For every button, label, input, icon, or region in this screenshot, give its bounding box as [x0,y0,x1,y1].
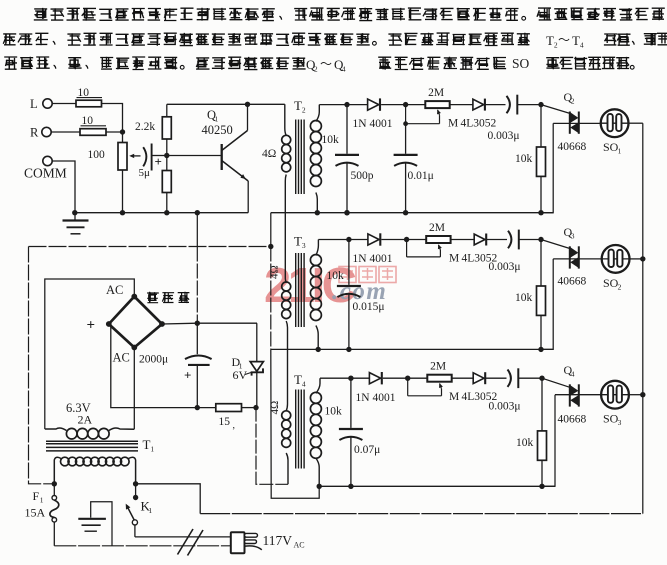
node T1 primary right [133,481,138,486]
wire triac return to rail (channel1) [541,123,553,212]
wire COMM to ground rail [52,161,77,215]
wire socket to return bus (channel1) [629,122,643,124]
svg-text:10k: 10k [515,153,533,165]
potentiometer 2M (channel1) [406,87,450,108]
svg-text:2.2k: 2.2k [135,121,155,133]
transformer T1 core [46,437,154,454]
lamp socket SO2 (channel2) [602,245,630,291]
svg-text:2: 2 [571,97,575,106]
diode 1N4001 (channel3) [351,372,396,404]
svg-text:AC: AC [106,283,123,297]
resistor 10k (channel3) [516,378,547,489]
potentiometer 2M (channel2) [407,222,451,243]
svg-text:1N: 1N [353,253,368,265]
svg-text:M: M [449,391,459,403]
svg-text:SO: SO [603,276,619,290]
svg-text:10k: 10k [515,292,533,304]
wire T2 primary top lead [285,104,286,135]
watermark Chinese characters (stylized) [339,267,396,283]
wire T3 secondary top lead [316,240,319,256]
wire lamp return bus (right vertical) [642,123,644,513]
svg-text:4: 4 [342,65,346,74]
wire R-10a to node A [102,104,123,133]
input terminal L [30,97,52,111]
capacitor 0.003u (channel1) [485,95,541,142]
wire triac MT (channel2) [553,258,601,260]
diode 1N4001 (channel1) [347,98,393,130]
wire channel1 rail nodes [344,210,349,215]
resistor 10k (channel1) [515,105,546,216]
svg-text:4: 4 [571,369,575,378]
triac Q2 40668 [558,90,587,153]
wire primaries return (to T4 primary bottom) [256,408,288,485]
pot 100 wiper arrow [129,154,140,158]
wire AC top feed (T1 secondary left to bridge) [45,279,135,429]
transformer T4 secondary winding 10k [310,392,342,458]
triac Q3 40668 [558,225,587,288]
wire R-10b to node A [106,131,123,133]
switch K1 [126,484,153,537]
wire T2 secondary top lead [316,105,319,122]
node B (2.2k / bias divider / base) [164,153,169,158]
svg-text:1: 1 [150,445,154,454]
svg-text:1: 1 [618,147,622,156]
wire triac MT (channel3) [555,394,601,396]
capacitor 2000u (electrolytic) [139,323,212,407]
svg-text:1N: 1N [353,118,368,130]
transformer T2 core [294,98,306,194]
resistor 10 (R input) [80,115,106,135]
svg-text:0.003μ: 0.003μ [489,261,521,273]
resistor 2.2k [135,104,171,155]
pot 2M wiper return (channel2) [407,240,442,257]
svg-text:1: 1 [40,496,44,505]
svg-text:0.015μ: 0.015μ [353,301,385,313]
wire socket to return bus (channel3) [629,392,646,397]
svg-text:15A: 15A [25,506,46,520]
svg-text:40668: 40668 [558,276,587,288]
svg-text:40668: 40668 [558,141,587,153]
node zener / primaries return [253,405,258,410]
wire channel3 common rail [319,485,555,487]
svg-text:10k: 10k [325,406,343,418]
svg-text:4001: 4001 [373,392,396,404]
transformer T2 secondary winding 10k [310,121,339,187]
svg-text:2A: 2A [78,413,93,427]
svg-text:15: 15 [219,416,231,428]
bridge rectifier (zhengliuqi) [87,283,165,365]
svg-text:10k: 10k [322,134,340,146]
node common bus / supply negative [268,244,273,249]
transistor Q1 40250 [202,104,249,212]
svg-text:3: 3 [571,231,575,240]
capacitor 0.015μ (tuning) [337,240,385,353]
resistor 10k (channel2) [515,240,546,353]
svg-text:500p: 500p [351,170,374,182]
transformer T4 core [294,372,306,469]
wire base node B to Q1 base [167,155,221,157]
node channel1 tuning cap junction [344,102,349,107]
svg-text:1N: 1N [356,392,371,404]
svg-text:+: + [87,318,96,334]
wire mains cable top conductor [135,536,231,538]
wire triac return to rail (channel3) [542,395,555,487]
transformer T3 primary winding 4ohm [269,265,291,318]
watermark .com (stylized) [332,278,387,305]
wire channel1 common rail [271,212,553,214]
svg-text:SO: SO [603,412,619,426]
wire triac return to rail (channel2) [541,259,553,350]
wire channel common bus (x=271) [271,213,319,499]
svg-text:,: , [233,420,236,431]
zener diode D1 6V [232,323,264,407]
diode 1N4001 (channel2) [349,233,393,265]
svg-text:5μ: 5μ [139,167,151,179]
mains plug 117VAC [231,532,305,553]
wire socket to return bus (channel2) [630,256,646,261]
wire T4 primary top to channel2 rail [286,349,287,410]
svg-text:L: L [30,97,38,111]
input terminal COMM [24,156,67,180]
svg-text:M: M [449,252,459,264]
svg-text:2M: 2M [429,222,445,234]
wire diode to node (channel3) [383,377,408,379]
svg-text:2: 2 [618,282,622,291]
wire R to R-10b [51,131,80,133]
svg-text:40250: 40250 [202,123,233,137]
svg-text:2000μ: 2000μ [139,354,168,366]
wire T4 secondary top lead [316,378,320,393]
svg-text:+: + [155,154,162,169]
svg-text:4L3052: 4L3052 [461,117,497,129]
node channel1 filter junction [403,102,408,107]
lamp socket SO3 (channel3) [601,381,629,427]
capacitor 0.003u (channel2) [486,230,541,273]
wire channel2 common rail [271,348,553,350]
svg-text:F: F [33,489,40,503]
wire bridge + to supply rail [109,324,216,408]
node channel3 gate junction [539,376,544,381]
svg-text:AC: AC [294,541,305,550]
wire T4 primary bottom to supply return [286,453,288,484]
paragraph line 1 (Chinese description text, stylized) [34,8,665,21]
node supply filter [195,405,200,410]
svg-text:T: T [294,98,302,113]
triac Q4 40668 [558,363,587,426]
wire mains cable bottom conductor [54,545,230,547]
svg-text:T: T [572,33,580,48]
svg-text:SO: SO [512,56,530,71]
paragraph line 2 (Chinese description text, stylized) [3,33,667,50]
wire diode to node (channel1) [381,104,406,106]
resistor (lower bias) [162,156,171,213]
svg-text:4: 4 [302,380,306,389]
node channel2 gate junction [538,237,543,242]
svg-text:4001: 4001 [370,253,393,265]
transformer T1 secondary winding 6.3V 2A [45,401,135,439]
svg-text:4: 4 [580,41,584,50]
wire channel1 secondary line [319,104,347,106]
ground (signal) [63,213,89,234]
fuse F1 15A [25,484,59,546]
pot 2M wiper return (channel3) [408,378,443,396]
svg-text:T: T [546,33,554,48]
svg-text:10k: 10k [516,437,534,449]
svg-text:0.01μ: 0.01μ [408,170,434,182]
potentiometer 100 [88,132,128,213]
resistor 10 (L input) [76,87,102,107]
svg-text:2: 2 [314,65,318,74]
svg-text:SO: SO [603,140,619,154]
wire T3 primary bottom to channel2 rail [286,321,287,349]
node Q1 collector junction [245,102,250,107]
svg-text:AC: AC [113,351,130,365]
svg-text:3: 3 [618,418,622,427]
svg-text:40668: 40668 [558,414,587,426]
wire T2 secondary bottom lead [315,193,320,216]
potentiometer 2M (channel3) [408,361,452,382]
svg-text:0.003μ: 0.003μ [489,401,521,413]
transformer T4 primary winding 4ohm [269,401,291,448]
transformer T1 primary winding [54,457,135,484]
wire T4 secondary bottom lead [316,458,322,489]
wire input ground rail [75,210,248,215]
svg-text:0.003μ: 0.003μ [488,130,520,142]
transformer T3 secondary winding 10k [310,255,344,321]
svg-text:1: 1 [148,506,152,515]
svg-text:4001: 4001 [370,118,393,130]
wire diode to node (channel2) [381,239,406,241]
capacitor 5u (electrolytic, polarized) [139,144,162,180]
svg-text:R: R [30,126,39,140]
node channel2 tuning cap junction [346,237,351,242]
svg-text:100: 100 [88,149,106,161]
wire channel2 secondary line [318,239,349,241]
wire common bus horizontal (to supply negative) [29,246,271,248]
svg-text:10: 10 [82,115,94,127]
wire L to R-10a [52,103,76,105]
capacitor 0.01u (channel1 filter) [394,124,434,216]
svg-text:0.07μ: 0.07μ [354,444,380,456]
svg-text:3: 3 [302,241,306,250]
svg-text:2M: 2M [430,361,446,373]
node channel3 filter junction [405,376,410,381]
capacitor 0.003u (channel3) [485,368,542,412]
svg-text:T: T [294,234,302,249]
transformer T2 primary winding 4ohm [262,135,291,172]
lamp socket SO1 (channel1) [601,109,629,155]
label rectifier (Chinese, stylized) [147,292,189,303]
node channel2 filter junction [404,237,409,242]
wire channel3 secondary line [320,377,351,379]
trigger diode M4L3052 (channel2) [449,234,498,265]
svg-text:117V: 117V [263,533,293,548]
wire ground rail down to filter line [196,213,198,324]
node A (L/R mix junction) [120,129,125,134]
resistor 15 [216,404,256,431]
wire top supply rail [167,103,285,105]
wire T3 secondary bottom lead [316,326,321,353]
svg-text:2M: 2M [428,87,444,99]
watermark 21IC (stylized) [264,259,357,313]
svg-text:～: ～ [558,33,570,47]
svg-text:6V: 6V [233,368,248,382]
wire left bus down to T1 primary [29,247,55,484]
svg-text:COMM: COMM [24,166,67,181]
node T1 primary left [52,481,57,486]
node channel1 gate junction [538,102,543,107]
node channel3 tuning cap junction [348,376,353,381]
trigger diode M4L3052 (channel1) [448,99,497,130]
wire gate (channel1) [541,105,570,114]
svg-text:+: + [184,368,191,383]
svg-text:2: 2 [302,106,306,115]
wire mains hot: T1 primary right to triac bus [136,484,643,514]
svg-text:T: T [294,372,302,387]
wire 5u to base node B [152,155,167,157]
trigger diode M4L3052 (channel3) [449,372,498,403]
ground (chassis) [78,519,106,531]
wire triac MT (channel1) [553,122,601,124]
input terminal R [30,126,51,140]
wire T2 primary bottom to T3 primary top (series chain) [284,175,287,283]
wire chassis ground tap [91,502,112,546]
wire gate (channel2) [541,240,570,249]
wire bridge - to filter line [162,321,257,326]
transformer T3 core [294,234,306,328]
svg-text:～: ～ [320,57,332,71]
svg-text:M: M [448,117,458,129]
paragraph line 3 (Chinese description text, stylized) [4,56,634,74]
wire gate (channel3) [542,378,570,387]
pot 2M wiper return (channel1) [403,105,441,127]
capacitor 0.07μ (tuning) [339,378,380,489]
svg-text:4Ω: 4Ω [262,148,276,160]
svg-text:T: T [143,437,151,452]
cable break marks [178,529,204,556]
capacitor 500p (tuning) [335,105,374,216]
svg-text:10k: 10k [327,270,345,282]
wire T1 secondary right to bridge AC bottom [133,348,135,430]
